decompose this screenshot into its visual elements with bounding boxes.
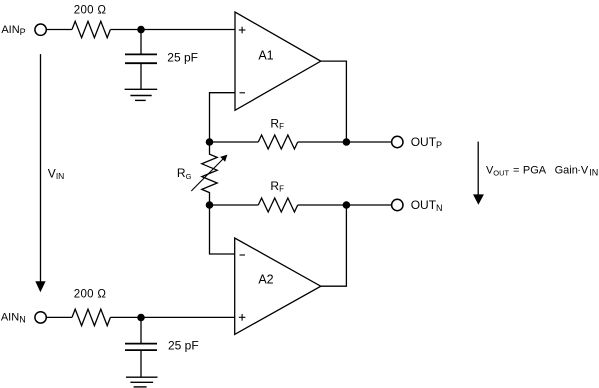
capacitor C1 25 pF — [125, 54, 157, 63]
wire C1 to ground — [140, 63, 142, 89]
terminal OUTP — [392, 136, 403, 147]
node junction dot bottom — [137, 314, 145, 322]
node output P — [343, 138, 351, 146]
op-amp A1 — [235, 12, 321, 110]
resistor R2 200 ohm — [72, 309, 110, 326]
wire R1 to A1 plus input — [110, 29, 235, 31]
wire AINN to R2 — [46, 316, 72, 318]
op-amp A2 — [235, 238, 321, 334]
node output N — [343, 201, 351, 209]
wire RF to output node N — [298, 204, 347, 206]
resistor R1 200 ohm — [72, 21, 110, 38]
RG wiper arrow — [191, 158, 224, 191]
resistor RG (variable) — [202, 142, 217, 205]
node feedback P — [206, 138, 214, 146]
wire node to RF top — [210, 141, 259, 143]
wire A2 output — [321, 205, 347, 286]
terminal AINN — [35, 312, 46, 323]
VIN arrow — [40, 54, 42, 282]
wire A2 minus input — [210, 205, 235, 254]
svg-text:25 pF: 25 pF — [167, 51, 198, 65]
VOUT arrow — [477, 142, 479, 195]
wire node to C1 — [140, 30, 142, 55]
svg-text:200 Ω: 200 Ω — [74, 5, 107, 17]
svg-text:A2: A2 — [258, 273, 273, 287]
terminal OUTN — [392, 199, 403, 210]
wire to OUTN terminal — [346, 204, 391, 206]
svg-text:200 Ω: 200 Ω — [74, 289, 107, 301]
wire node to C2 — [140, 317, 142, 343]
svg-text:25 pF: 25 pF — [168, 338, 199, 352]
wire node to RF bottom — [210, 204, 259, 206]
wire to OUTP terminal — [346, 141, 391, 143]
resistor RF (top) — [258, 135, 297, 149]
node feedback N — [206, 201, 214, 209]
terminal AINP — [35, 24, 46, 35]
resistor RF (bottom) — [258, 198, 297, 212]
svg-text:A1: A1 — [258, 48, 273, 62]
wire A1 output — [321, 61, 347, 142]
wire C2 to ground — [140, 350, 142, 377]
wire RF to output node P — [298, 141, 347, 143]
node junction dot top — [137, 26, 145, 34]
ground (bottom) — [126, 377, 158, 387]
ground (top) — [125, 89, 158, 100]
wire A1 minus input — [210, 93, 236, 142]
capacitor C2 25 pF — [125, 344, 157, 351]
wire R2 to A2 plus input — [110, 316, 234, 318]
wire AINP to R1 — [46, 29, 72, 31]
